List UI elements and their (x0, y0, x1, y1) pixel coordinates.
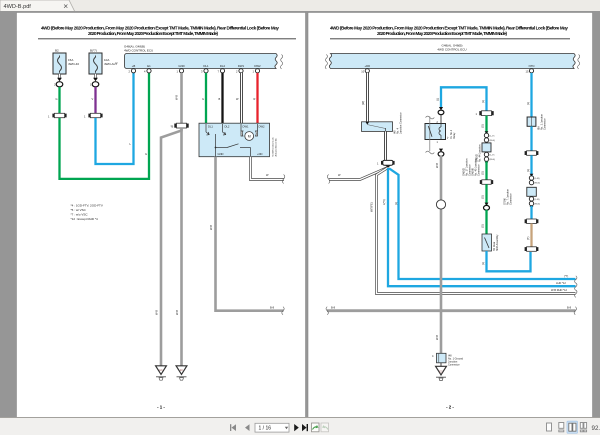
svg-text:(R-G): (R-G) (490, 140, 496, 142)
relay R1 DL relay (425, 116, 456, 154)
fuse F1 4WD-40 (53, 53, 79, 74)
ground junction connector I48g (432, 353, 464, 366)
svg-text:LHD *12: LHD *12 (556, 281, 566, 285)
svg-text:(L): (L) (526, 169, 530, 172)
wire gray actuator GND to B-8 continuation (209, 157, 284, 311)
connector IK1 (84, 113, 103, 118)
previous page button (disabled) (245, 424, 250, 431)
junction block A (482, 143, 491, 152)
svg-text:G: G (145, 152, 147, 156)
first page button (disabled) (230, 424, 236, 431)
B-8 bus right tear (574, 307, 576, 315)
svg-text:DL2: DL2 (220, 64, 226, 68)
ECU pin circle DW1 (236, 69, 243, 74)
page 2 header title (330, 26, 568, 37)
differential lock actuator assembly body (199, 123, 270, 157)
page 1 header rule (38, 38, 296, 39)
svg-text:+B: +B (132, 64, 136, 68)
wire blue connector I51 to LHD line (382, 168, 576, 286)
svg-text:(R-G): (R-G) (490, 159, 496, 161)
svg-text:+DD: +DD (364, 64, 370, 68)
wire blue junction B to connector I12a (530, 206, 532, 219)
continuation tear +DD wire (282, 175, 284, 184)
junction circle pair B1 (529, 174, 540, 185)
junction block A label (476, 144, 482, 162)
svg-text:W-B RHD *12: W-B RHD *12 (551, 288, 568, 292)
page number box (255, 423, 289, 432)
wire gray B-8 bus page2 (327, 306, 576, 311)
wire relay feed (440, 115, 442, 124)
next page button (294, 424, 299, 431)
svg-text:DW2: DW2 (254, 64, 261, 68)
wire blue connector I51 branch to *7 line (389, 168, 576, 279)
continuation tear *7 line (575, 276, 577, 283)
svg-text:2020 Production, From May 2020: 2020 Production, From May 2020 Productio… (377, 31, 507, 36)
svg-text:B: B (219, 97, 221, 101)
svg-text:- 2 -: - 2 - (446, 405, 454, 410)
connector pair below fuse F2 (90, 74, 99, 87)
svg-text:(T): (T) (526, 237, 530, 240)
wire gray GND pin to connector IK3 (175, 73, 182, 123)
svg-text:EC: EC (439, 369, 443, 373)
svg-text:4WD CONTROL ECU: 4WD CONTROL ECU (437, 48, 466, 52)
svg-text:4WD (Before May 2020 Productio: 4WD (Before May 2020 Production, From Ma… (41, 26, 279, 31)
junction block B (527, 187, 537, 196)
svg-text:(L-R): (L-R) (535, 178, 540, 180)
svg-text:Junction Connector: Junction Connector (400, 112, 403, 134)
wire gray switch S21 to ground junction (435, 156, 441, 354)
svg-text:B-8: B-8 (567, 306, 572, 310)
junction circle pair A2 (484, 152, 495, 164)
continuation tear white RHD line (575, 290, 577, 297)
svg-text:B2: B2 (55, 49, 59, 53)
ECU pin circle E1 (144, 69, 151, 74)
wire green oval connector to shift switch (481, 210, 487, 234)
ECU pin circle NTN (526, 69, 534, 74)
notes block (71, 204, 103, 222)
shift position switch S9 (482, 234, 499, 251)
svg-text:EC: EC (180, 369, 184, 372)
svg-text:*7 : w/o VSC: *7 : w/o VSC (71, 213, 89, 217)
svg-text:B-8: B-8 (331, 306, 336, 310)
svg-text:*B: *B (171, 125, 174, 129)
actuator internal lock switch (206, 124, 251, 157)
svg-text:1 / 16: 1 / 16 (259, 426, 272, 432)
next view icon (disabled) (321, 423, 329, 432)
svg-text:(L): (L) (394, 202, 398, 205)
svg-text:2020 Production, From May 2020: 2020 Production, From May 2020 Productio… (88, 31, 218, 36)
svg-text:W-B: W-B (209, 225, 213, 230)
last page button (302, 424, 308, 431)
ground GR3 (436, 366, 447, 380)
wire green DL1 to actuator (202, 73, 206, 123)
wire green fuse F1 to connector IJ1 (56, 87, 60, 113)
svg-text:M: M (248, 135, 251, 139)
svg-text:(G): (G) (481, 195, 485, 199)
svg-text:(R-G): (R-G) (535, 183, 541, 185)
svg-text:(L-R): (L-R) (535, 199, 540, 201)
continuation tear B-8 (282, 307, 284, 315)
fuse F2 4WD-ALT (89, 53, 117, 74)
svg-text:Connector: Connector (448, 364, 460, 367)
junction block B label (504, 188, 513, 205)
svg-text:W-B: W-B (435, 163, 439, 168)
svg-text:*5 : w/ VSC: *5 : w/ VSC (71, 208, 87, 212)
wire white +DD pin to junction connector I48 (361, 73, 368, 122)
ECU pin circle +DD (361, 69, 369, 74)
svg-text:G4 Differential Lock: G4 Differential Lock (272, 136, 275, 156)
svg-text:E1: E1 (147, 64, 151, 68)
svg-text:GND: GND (178, 64, 184, 68)
ground GR2 (176, 366, 187, 380)
wire red DW2 to actuator (254, 73, 258, 123)
wire white actuator +DD to page2 (251, 157, 285, 180)
svg-text:(L-Y): (L-Y) (490, 155, 495, 157)
continuation tear page2 left (327, 175, 329, 184)
connector IK3 (171, 123, 189, 128)
svg-text:L(*5): L(*5) (382, 199, 386, 205)
wire blue jumper switch to I19 (436, 87, 487, 110)
svg-text:92.5%: 92.5% (592, 425, 600, 432)
active document tab (0, 0, 75, 12)
wire blue I8A to connector I8 (530, 126, 532, 151)
wire ground junction to ground (440, 363, 442, 366)
svg-text:(G): (G) (481, 171, 485, 175)
svg-text:(L): (L) (436, 98, 440, 101)
splice bowtie below I51 (385, 166, 390, 170)
svg-text:No. 44 Junction: No. 44 Junction (479, 144, 482, 162)
junction connector I48 No.4 (362, 112, 403, 134)
svg-text:Relay: Relay (453, 132, 456, 139)
wire blue I8 to junction circle B1 (526, 155, 532, 177)
connector I12b (525, 247, 539, 252)
connector pair below fuse F1 (54, 74, 63, 87)
svg-text:W(*B*E): W(*B*E) (370, 202, 374, 212)
svg-text:B-8: B-8 (270, 306, 275, 310)
wire blue shift switch to I12 loop (481, 251, 531, 271)
wire green I15 to oval connector (481, 184, 487, 205)
page 2 header rule (330, 38, 570, 39)
svg-text:(*7): (*7) (564, 274, 568, 278)
svg-text:Connector: Connector (544, 118, 547, 130)
svg-text:W-B: W-B (155, 310, 159, 315)
svg-text:*12 : Except RHD *4: *12 : Except RHD *4 (71, 217, 99, 221)
oval connector column A (484, 203, 490, 211)
svg-text:4WD CONTROL ECU: 4WD CONTROL ECU (124, 49, 153, 53)
junction circle pair A1 (484, 131, 495, 142)
svg-text:(L): (L) (481, 100, 485, 103)
svg-text:(L): (L) (481, 262, 485, 265)
svg-text:Actuator Assembly: Actuator Assembly (274, 137, 277, 156)
page 2 sheet (308, 13, 593, 418)
svg-text:W-B: W-B (175, 310, 179, 315)
svg-text:DL2: DL2 (225, 125, 230, 129)
svg-text:(G): (G) (481, 124, 485, 128)
actuator motor M (241, 124, 258, 140)
junction connector I8A (527, 113, 546, 130)
svg-text:*4 : 1GD-FTV, 2GD-FTV: *4 : 1GD-FTV, 2GD-FTV (71, 204, 103, 208)
svg-text:DW1: DW1 (238, 64, 245, 68)
svg-text:W-B: W-B (435, 335, 439, 340)
junction circle pair B2 (529, 197, 540, 209)
connector IJ1 (48, 113, 67, 118)
svg-text:*7: *7 (115, 62, 118, 66)
svg-text:NTN: NTN (529, 64, 535, 68)
ECU pin circle DL1 (201, 69, 208, 74)
svg-text:DW2: DW2 (259, 125, 265, 129)
page 1 header title (41, 26, 279, 37)
ECU pin circle DL2 (218, 69, 225, 74)
wire tan I12a to I12b (526, 224, 532, 247)
svg-text:Connector: Connector (478, 164, 481, 176)
op 4WD control ECU connector bar U1 (125, 54, 283, 69)
ground GR1 (156, 366, 167, 380)
wire green connector IJ1 to ECU pin E1 (60, 73, 150, 179)
4WD control ECU name label (124, 45, 153, 53)
wire white junction I48 to connector I51 (384, 131, 387, 160)
svg-text:V: V (92, 97, 94, 101)
wire white from page1 +DD continuation (329, 168, 387, 180)
connector I12a (525, 219, 539, 224)
ECU name label page2 (437, 44, 466, 52)
svg-text:B(*7): B(*7) (90, 49, 97, 53)
facing continuous layout icon (580, 423, 586, 432)
svg-text:DL1: DL1 (208, 125, 213, 129)
svg-text:R: R (254, 97, 256, 101)
junction connector label column (463, 158, 481, 176)
svg-text:Shift Assembly: Shift Assembly (496, 234, 499, 251)
previous view icon (312, 423, 320, 432)
connector pair below relay R1 (438, 149, 444, 157)
connector I8 (525, 151, 539, 156)
connector I19 (476, 111, 494, 116)
svg-text:(L): (L) (526, 102, 530, 105)
svg-text:(R-G): (R-G) (535, 204, 541, 206)
single page layout icon (547, 423, 552, 431)
svg-text:(W): (W) (361, 101, 365, 105)
svg-text:G: G (56, 97, 58, 101)
bottom toolbar (0, 417, 600, 435)
svg-text:+DD: +DD (257, 152, 263, 156)
svg-text:(G): (G) (481, 224, 485, 228)
wire gray GND main to right ground (175, 128, 182, 366)
svg-text:DL1: DL1 (203, 64, 209, 68)
continuous layout icon (559, 423, 564, 432)
actuator name label (272, 136, 278, 156)
continuation tear LHD line (575, 283, 577, 290)
connector pair above relay R1 (438, 107, 444, 115)
svg-text:Connector: Connector (510, 193, 513, 205)
svg-text:DW1: DW1 (243, 125, 249, 129)
wire black DL2 to actuator (219, 73, 223, 123)
svg-text:4WD-40: 4WD-40 (68, 62, 79, 66)
splice circle on ground wire (436, 200, 445, 209)
svg-text:- 1 -: - 1 - (157, 405, 165, 410)
svg-text:4WD (Before May 2020 Productio: 4WD (Before May 2020 Production, From Ma… (330, 26, 568, 31)
svg-text:GND: GND (218, 152, 224, 156)
svg-text:4WD-B.pdf: 4WD-B.pdf (4, 4, 32, 10)
svg-text:W-B: W-B (175, 95, 179, 100)
wire blue connector IK1 to ECU pin +B (96, 73, 134, 164)
svg-text:G: G (202, 97, 204, 101)
svg-text:EC: EC (159, 369, 163, 372)
page 1 sheet (17, 13, 306, 418)
wire white connector I51 down to RHD line (370, 168, 576, 294)
ECU pin circle DW2 (253, 69, 260, 74)
connector I15 (480, 180, 493, 185)
facing layout icon (active) (567, 421, 578, 433)
wire green I19 to junction circle A (481, 116, 487, 135)
B-8 bus left tear (326, 307, 328, 315)
ECU pin circle GND (177, 69, 184, 74)
wire green junction A to connector I15 (481, 162, 487, 180)
ECU pin circle +B (129, 69, 136, 74)
wire gray GND branch to left ground (155, 128, 182, 366)
wire violet fuse F2 to connector IK1 (92, 87, 96, 113)
wire white DW1 to actuator (236, 73, 242, 123)
connector I51 (377, 160, 395, 165)
svg-text:(L-Y): (L-Y) (490, 135, 495, 137)
4WD control ECU connector bar continuation (325, 53, 580, 68)
tab bar (0, 0, 600, 11)
svg-text:✕: ✕ (63, 4, 68, 11)
wire blue NTN pin to junction I8A (526, 73, 532, 117)
